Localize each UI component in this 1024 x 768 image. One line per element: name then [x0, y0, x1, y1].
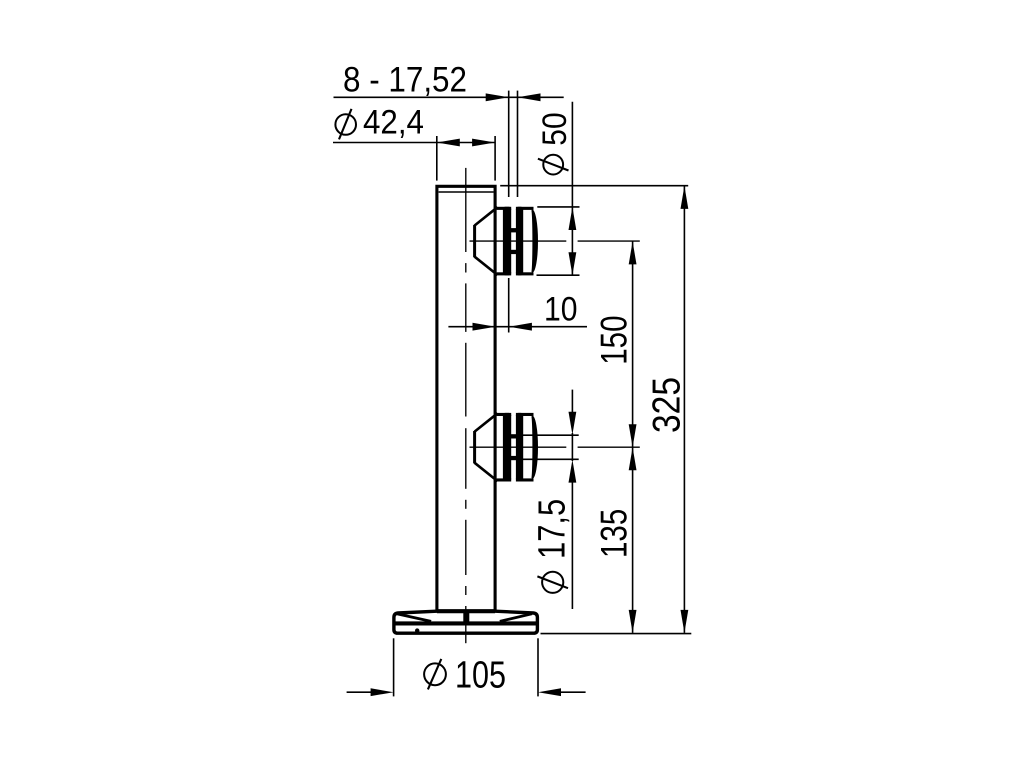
- flange mid plate: [395, 621, 537, 625]
- label ⌀ 50 (rotated): [543, 155, 563, 175]
- dim "8 - 17,52" glass extension lines: [509, 91, 518, 333]
- label ⌀ 42,4: [335, 114, 356, 135]
- clamp axis centerline: [470, 240, 567, 242]
- inner plate: [497, 413, 512, 416]
- clamp axis centerline: [470, 446, 567, 448]
- screw bosses: [510, 228, 518, 232]
- ⌀17,5 extension lines: [523, 434, 579, 436]
- svg-text:8 - 17,52: 8 - 17,52: [343, 61, 467, 100]
- svg-text:105: 105: [455, 654, 506, 696]
- outer plate: [516, 413, 523, 482]
- svg-text:50: 50: [536, 112, 574, 145]
- centerline (post axis, dash-dot): [465, 168, 467, 252]
- flange center stud: [463, 612, 469, 622]
- flange dot: [415, 628, 419, 632]
- svg-text:325: 325: [645, 377, 688, 433]
- dim 10 line: [448, 326, 587, 328]
- label ⌀ 17,5 (rotated): [542, 572, 563, 593]
- label ⌀ 105: [424, 663, 446, 685]
- inner plate: [497, 207, 512, 210]
- clamp body cone: [473, 225, 476, 257]
- svg-text:42,4: 42,4: [363, 104, 424, 142]
- flange top plate: [437, 609, 495, 613]
- dim 325 vertical: [683, 186, 685, 633]
- dim line 8 - 17,52: [334, 96, 564, 98]
- dim line ⌀42,4: [333, 142, 495, 144]
- svg-text:135: 135: [594, 509, 635, 558]
- flange diagonal right: [500, 614, 532, 622]
- extension line post top (for 325): [500, 185, 688, 187]
- dome cap: [532, 416, 538, 479]
- extension line base bottom (for 135/325): [541, 633, 692, 635]
- lower glass clamp: [470, 413, 640, 482]
- flange diagonal left: [397, 614, 431, 622]
- screw bosses: [510, 434, 518, 438]
- dim ⌀105 extension lines: [393, 638, 395, 696]
- dim ⌀42,4 extension lines: [437, 136, 495, 181]
- dim ⌀17,5: [571, 390, 573, 414]
- svg-text:10: 10: [544, 290, 578, 328]
- dim 135 vertical: [632, 447, 634, 633]
- outer plate: [516, 207, 523, 276]
- ⌀50 extension lines: [537, 206, 579, 208]
- dim ⌀50 vertical line: [571, 102, 573, 275]
- clamp body cone: [473, 431, 476, 463]
- svg-text:150: 150: [594, 316, 635, 365]
- upper glass clamp: [470, 207, 640, 276]
- base flange: [394, 611, 538, 633]
- dim line ⌀105: [347, 691, 372, 693]
- dim 150 vertical: [632, 241, 634, 447]
- post tube outline: [437, 186, 495, 611]
- dome cap: [532, 210, 538, 273]
- svg-text:17,5: 17,5: [532, 499, 574, 559]
